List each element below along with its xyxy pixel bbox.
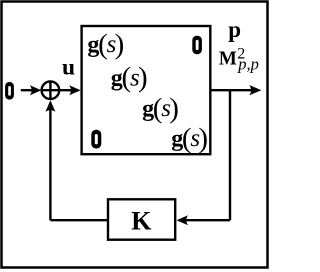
svg-text:u: u <box>62 55 75 81</box>
svg-text:): ) <box>115 28 125 60</box>
svg-text:): ) <box>138 62 148 94</box>
svg-text:p: p <box>228 17 241 42</box>
svg-text:): ) <box>169 92 179 124</box>
svg-text:p,p: p,p <box>237 54 259 73</box>
svg-text:): ) <box>198 123 208 155</box>
svg-text:K: K <box>131 207 152 236</box>
svg-text:M: M <box>219 47 237 70</box>
